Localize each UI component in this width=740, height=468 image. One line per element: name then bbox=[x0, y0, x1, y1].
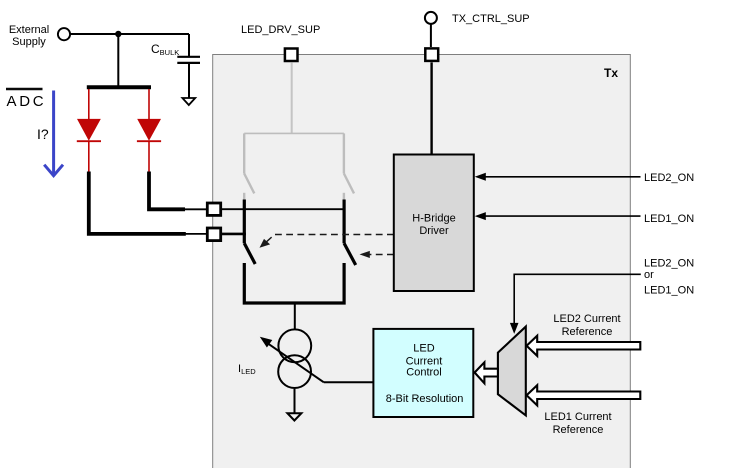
svg-text:LED: LED bbox=[413, 342, 434, 354]
svg-text:Supply: Supply bbox=[12, 36, 46, 48]
svg-text:LED_DRV_SUP: LED_DRV_SUP bbox=[241, 24, 320, 36]
svg-text:LED1_ON: LED1_ON bbox=[644, 213, 694, 225]
svg-text:LED2 Current: LED2 Current bbox=[553, 313, 620, 325]
svg-text:LED2_ON: LED2_ON bbox=[644, 172, 694, 184]
svg-text:Reference: Reference bbox=[562, 326, 613, 338]
svg-text:I?: I? bbox=[37, 126, 49, 142]
svg-text:Tx: Tx bbox=[604, 66, 618, 80]
svg-text:8-Bit Resolution: 8-Bit Resolution bbox=[386, 393, 464, 405]
svg-text:External: External bbox=[9, 24, 49, 36]
svg-text:LED2_ON: LED2_ON bbox=[644, 258, 694, 270]
svg-text:LED1_ON: LED1_ON bbox=[644, 284, 694, 296]
svg-text:Control: Control bbox=[406, 367, 441, 379]
svg-text:TX_CTRL_SUP: TX_CTRL_SUP bbox=[452, 13, 530, 25]
svg-text:Driver: Driver bbox=[419, 225, 449, 237]
svg-text:CBULK: CBULK bbox=[151, 42, 179, 57]
svg-text:Reference: Reference bbox=[553, 424, 604, 436]
svg-text:H-Bridge: H-Bridge bbox=[412, 213, 455, 225]
svg-text:LED1 Current: LED1 Current bbox=[544, 411, 611, 423]
svg-text:or: or bbox=[644, 269, 654, 281]
svg-text:ADC: ADC bbox=[7, 93, 47, 110]
